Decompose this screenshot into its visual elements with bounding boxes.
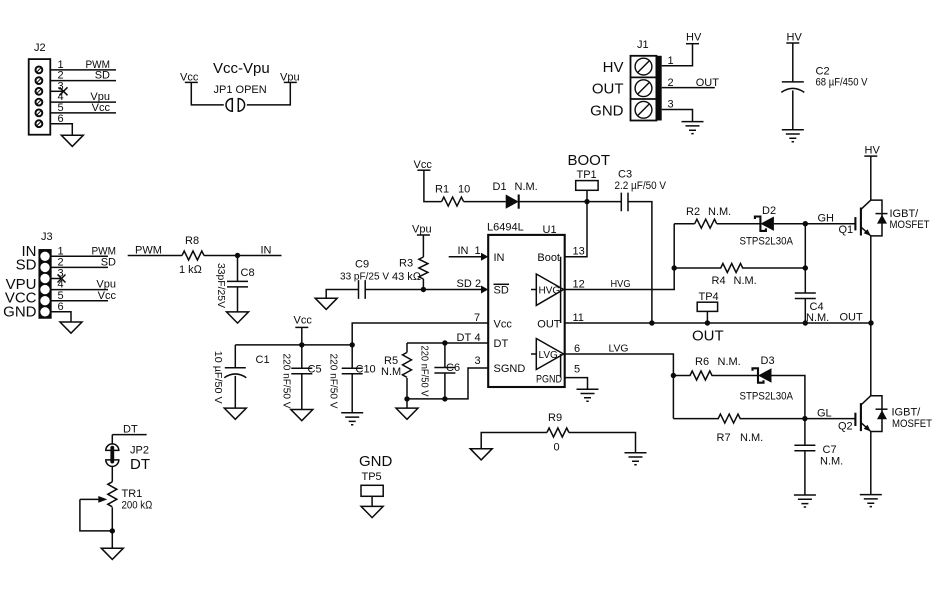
transistor Q1 IGBT/MOSFET	[839, 200, 883, 236]
diode Q2 body diode	[876, 409, 888, 419]
wire J1 pin 2 OUT	[662, 77, 720, 89]
testpoint TP5	[361, 471, 383, 506]
node junction GL	[802, 416, 807, 421]
wire GH down to C4	[804, 224, 806, 293]
wire J2 pin 2 SD	[50, 70, 116, 82]
wire R1 to D1	[464, 201, 506, 203]
svg-text:Q2: Q2	[838, 421, 853, 433]
svg-text:10 µF/50 V: 10 µF/50 V	[212, 351, 223, 404]
svg-text:JP1 OPEN: JP1 OPEN	[214, 84, 267, 96]
svg-text:200 kΩ: 200 kΩ	[122, 500, 153, 512]
diode Q1 body diode	[876, 214, 888, 224]
svg-text:HVG: HVG	[611, 279, 631, 290]
svg-text:R7: R7	[717, 432, 731, 444]
wire to R2	[674, 223, 695, 225]
wire R9 to earth ground	[569, 433, 636, 453]
wire U1 pin 5 PGND to ground	[565, 378, 588, 390]
svg-text:GND: GND	[590, 103, 624, 120]
diode D3 STPS2L30A schottky	[740, 355, 794, 403]
U1 internal buffer LVG	[531, 339, 564, 370]
svg-text:OUT: OUT	[592, 81, 624, 98]
label IN 1	[458, 245, 481, 257]
svg-text:0: 0	[554, 442, 560, 454]
node junction C3/OUT	[649, 320, 654, 325]
wire J3 pin 1 PWM	[51, 245, 116, 257]
pin arrow SD into U1	[481, 286, 488, 294]
svg-text:13: 13	[573, 245, 585, 257]
resistor R8 1k	[179, 235, 204, 276]
ground earth (Q2)	[860, 495, 882, 507]
wire PWM to R8	[128, 255, 182, 257]
node junction rail/C5	[299, 342, 304, 347]
wire R2 to D2	[717, 223, 761, 225]
node junction LVG/R6	[671, 373, 676, 378]
wire Vpu to R3	[422, 235, 424, 257]
J3 pin circle 1	[40, 252, 49, 261]
svg-text:N.M.: N.M.	[515, 181, 538, 193]
resistor R3 43k	[392, 257, 428, 283]
J3 pin circle 6	[40, 307, 49, 316]
svg-text:Vcc-Vpu: Vcc-Vpu	[213, 60, 270, 77]
svg-text:R8: R8	[185, 235, 199, 247]
svg-text:C1: C1	[256, 354, 270, 366]
svg-text:5: 5	[574, 364, 580, 376]
connector J2	[29, 42, 51, 135]
capacitor C2 68uF/450V polarized	[781, 66, 868, 93]
svg-text:IN: IN	[261, 245, 272, 257]
resistor R1 10	[435, 184, 470, 207]
svg-text:OUT: OUT	[537, 318, 561, 330]
svg-text:N.M.: N.M.	[718, 356, 741, 368]
wire C1 to ground	[234, 376, 236, 408]
capacitor C5 220nF/50V	[281, 354, 322, 409]
J3 pin circle 4	[40, 285, 49, 294]
svg-text:GND: GND	[3, 304, 37, 321]
node junction TP4/OUT	[705, 320, 710, 325]
svg-text:C7: C7	[823, 444, 837, 456]
wire D2 to GH node	[774, 223, 856, 225]
ground (C8)	[227, 312, 249, 323]
ground earth (R9 right)	[625, 453, 647, 465]
wire Q2 emitter to ground	[870, 432, 872, 495]
J1 terminal screw 1	[635, 58, 652, 75]
U1 internal buffer HVG	[531, 274, 564, 305]
ground earth (J1 pin 3)	[682, 122, 704, 134]
svg-text:D1: D1	[493, 181, 507, 193]
wire wiper return to bottom	[80, 499, 112, 531]
wire JP2 to TR1	[111, 466, 113, 481]
op-amp U1 L6494L gate driver IC	[487, 222, 565, 388]
U1 internal boot-out rail	[560, 257, 562, 323]
svg-text:C3: C3	[618, 169, 632, 181]
wire J3 pin 5 Vcc	[51, 290, 117, 302]
svg-text:R1: R1	[435, 184, 449, 196]
ground earth (C7)	[794, 495, 816, 507]
connector J3	[39, 231, 52, 318]
power Vcc (JP1 left)	[180, 72, 224, 105]
node BOOT junction	[584, 199, 589, 204]
svg-text:R9: R9	[548, 412, 562, 424]
svg-text:STPS2L30A: STPS2L30A	[740, 236, 794, 248]
wire J3 pin 6	[51, 301, 71, 322]
svg-text:7: 7	[474, 312, 480, 324]
svg-text:Vcc: Vcc	[494, 318, 513, 330]
wire DT to R5	[406, 343, 408, 352]
wire D1 to BOOT node	[519, 201, 622, 203]
wire GL to Q2 gate	[805, 418, 856, 420]
J2 screw pin 3	[36, 88, 43, 95]
ground earth (C10)	[341, 413, 363, 425]
wire C9 to SD pin 2	[365, 289, 483, 291]
wire J1 pin 3 to ground	[662, 99, 693, 122]
svg-text:220 nF/50 V: 220 nF/50 V	[419, 346, 430, 397]
wire J1 pin 1 to HV	[662, 44, 693, 67]
wire Vcc to R1	[424, 170, 442, 201]
svg-text:GL: GL	[817, 408, 832, 420]
wire J3 pin 3 no-connect	[51, 268, 66, 283]
node junction R8/C8	[235, 253, 240, 258]
svg-text:N.M.: N.M.	[734, 275, 757, 287]
U1 internal lvg-pgnd rail	[560, 354, 562, 378]
wire U1 pin 4 DT	[407, 342, 488, 344]
wire junction to C8	[237, 256, 239, 282]
svg-text:IN: IN	[494, 252, 505, 264]
svg-text:J2: J2	[34, 42, 46, 54]
power Vcc (R1 top)	[414, 159, 433, 171]
wire R5 to bottom node	[406, 378, 408, 399]
svg-text:PWM: PWM	[135, 245, 162, 257]
svg-text:SGND: SGND	[494, 363, 526, 375]
svg-text:SD: SD	[16, 257, 37, 274]
ground (C5)	[291, 410, 313, 421]
ground earth (PGND)	[577, 389, 599, 401]
svg-text:N.M.: N.M.	[740, 432, 763, 444]
ground (J2 pin 6)	[61, 135, 83, 146]
svg-text:DT: DT	[130, 456, 150, 473]
svg-text:LVG: LVG	[609, 344, 629, 355]
node junction HVG/R4	[672, 265, 677, 270]
wire SGND pin 3 to bottom node	[407, 368, 488, 399]
svg-text:2.2 µF/50 V: 2.2 µF/50 V	[615, 180, 667, 192]
svg-text:2: 2	[475, 278, 481, 290]
node junction R4/C4	[803, 265, 808, 270]
wire HV to Q1	[870, 156, 872, 200]
wire GL down to C7	[804, 419, 806, 446]
resistor R2 N.M.	[686, 206, 731, 228]
transistor TR1 potentiometer 200k	[108, 482, 153, 512]
svg-text:L6494L: L6494L	[487, 222, 524, 234]
resistor R5 N.M.	[381, 352, 412, 378]
node junction D2/C4 (GH)	[803, 221, 808, 226]
svg-text:1 kΩ: 1 kΩ	[179, 264, 203, 276]
svg-text:12: 12	[573, 279, 585, 291]
svg-text:R6: R6	[695, 356, 709, 368]
node junction TR1/wiper	[110, 528, 115, 533]
svg-text:Q1: Q1	[839, 224, 854, 236]
svg-text:3: 3	[668, 99, 674, 111]
wire U1 pin 12 HVG	[565, 224, 675, 290]
J2 screw pin 1	[36, 67, 43, 74]
label IGBT/MOSFET (Q2)	[892, 407, 933, 431]
wire U1 pin 6 LVG	[565, 344, 674, 419]
svg-text:3: 3	[475, 355, 481, 367]
capacitor C1 10uF/50V polarized	[212, 351, 270, 404]
transistor Q2 IGBT/MOSFET	[838, 396, 882, 433]
svg-text:TP1: TP1	[577, 169, 597, 181]
resistor R6 N.M.	[673, 356, 758, 380]
svg-text:Boot: Boot	[537, 252, 560, 264]
ground (R5/C6)	[396, 408, 418, 419]
svg-text:MOSFET: MOSFET	[892, 418, 932, 430]
svg-text:OUT: OUT	[840, 312, 864, 324]
wire J2 pin 5 Vcc	[50, 102, 116, 114]
resistor R9 0	[547, 412, 569, 454]
power HV (Q1 collector)	[864, 145, 880, 157]
diode D1 N.M.	[493, 181, 538, 209]
node junction DT/C6 top	[442, 340, 447, 345]
wire J2 pin 4 Vpu	[50, 91, 116, 103]
connector J1	[631, 39, 662, 121]
wire C2 to ground	[792, 90, 794, 129]
wire IN stub to pin 1	[449, 256, 483, 258]
wire D3 down to GL node	[772, 376, 805, 419]
J1 terminal screw 2	[635, 80, 652, 97]
svg-text:IGBT/: IGBT/	[892, 407, 922, 419]
ground (C1)	[224, 408, 246, 419]
wire OUT to Q2 collector	[870, 323, 872, 396]
svg-text:J1: J1	[637, 39, 649, 51]
node junction C4/OUT	[803, 320, 808, 325]
svg-text:220 nF/50 V: 220 nF/50 V	[328, 354, 339, 409]
resistor R7 N.M.	[673, 414, 805, 444]
svg-text:DT: DT	[457, 332, 472, 344]
TR1 wiper arrow	[80, 496, 107, 503]
label IGBT/MOSFET (Q1)	[890, 208, 930, 231]
wire C8 to ground	[237, 287, 239, 312]
J3 pin circle 3	[40, 274, 49, 283]
wire C4 to OUT line	[804, 299, 806, 324]
svg-text:Vpu: Vpu	[412, 224, 432, 236]
ground (J3 pin 6)	[60, 322, 82, 333]
svg-text:11: 11	[573, 312, 584, 324]
svg-text:R2: R2	[686, 206, 700, 218]
J2 screw pin 2	[36, 77, 43, 84]
label SD 2	[457, 278, 482, 290]
ground (TP5)	[361, 506, 383, 517]
wire C7 to ground	[804, 451, 806, 495]
node junction OUT/Q2	[868, 320, 873, 325]
wire Vcc rail	[235, 344, 352, 346]
wire Q1 emitter to OUT	[870, 236, 872, 323]
svg-text:OUT: OUT	[692, 328, 724, 345]
wire J3 pin 4 Vpu	[51, 279, 116, 291]
J2 screw pin 5	[36, 110, 43, 117]
svg-text:N.M.: N.M.	[806, 312, 829, 324]
svg-text:R3: R3	[399, 258, 413, 270]
capacitor C8 33pF/25V	[215, 263, 255, 308]
power Vpu (R3 top)	[412, 224, 432, 236]
node junction R3/SD	[421, 287, 426, 292]
svg-text:N.M.: N.M.	[381, 366, 404, 378]
svg-text:1: 1	[475, 245, 481, 257]
capacitor C6 220nF/50V	[419, 343, 461, 399]
svg-text:HV: HV	[787, 32, 803, 44]
svg-text:6: 6	[574, 343, 580, 355]
testpoint TP4	[697, 291, 718, 323]
wire DT stub to JP2	[111, 435, 113, 445]
wire C5 to ground	[301, 374, 303, 410]
node junction R5 bottom	[404, 396, 409, 401]
wire J3 pin 2 SD	[51, 257, 116, 269]
svg-text:PGND: PGND	[536, 374, 562, 386]
svg-text:JP2: JP2	[130, 445, 149, 457]
wire rail to C1	[234, 345, 236, 368]
svg-text:68 µF/450 V: 68 µF/450 V	[816, 77, 869, 89]
wire R8 to IN stub	[204, 255, 282, 257]
svg-text:TP5: TP5	[362, 471, 382, 483]
svg-text:C8: C8	[241, 267, 255, 279]
svg-text:4: 4	[475, 332, 481, 344]
svg-text:BOOT: BOOT	[568, 152, 611, 169]
capacitor C10 220nF/50V	[328, 354, 376, 409]
wire HV to C2	[792, 43, 794, 82]
svg-text:DT: DT	[494, 338, 509, 350]
wire J2 pin 6	[50, 113, 72, 135]
J2 screw pin 6	[36, 120, 43, 127]
wire J2 pin 3 no-connect	[50, 80, 67, 95]
jumper JP2 closed	[106, 444, 149, 466]
svg-text:STPS2L30A: STPS2L30A	[740, 391, 794, 403]
power Vpu (JP1 right)	[247, 72, 300, 105]
svg-text:TP4: TP4	[699, 291, 719, 303]
wire Vcc stub to rail	[301, 327, 303, 345]
diode D2 STPS2L30A schottky	[740, 205, 794, 248]
svg-text:Vcc: Vcc	[294, 315, 313, 327]
J2 screw pin 4	[36, 99, 43, 106]
svg-text:R4: R4	[712, 275, 726, 287]
wire ground to R9	[481, 433, 547, 449]
wire rail up to U1 pin 7	[352, 323, 488, 345]
capacitor C9 33pF/25V	[340, 259, 389, 299]
svg-text:33pF/25V: 33pF/25V	[215, 263, 226, 308]
wire bottom node to ground	[406, 399, 408, 408]
svg-text:220 nF/50 V: 220 nF/50 V	[281, 354, 292, 409]
wire C10 to ground	[351, 374, 353, 413]
svg-text:SD: SD	[457, 278, 472, 290]
node DT stub	[112, 424, 146, 436]
power HV (C2 top)	[786, 32, 802, 44]
svg-text:MOSFET: MOSFET	[890, 219, 930, 231]
jumper JP1 OPEN	[214, 84, 267, 111]
capacitor C3 2.2uF/50V	[615, 169, 667, 212]
svg-text:IN: IN	[458, 245, 469, 257]
J3 pin circle 2	[40, 263, 49, 272]
svg-text:HV: HV	[865, 145, 881, 157]
J3 pin circle 5	[40, 296, 49, 305]
ground earth (C2)	[782, 130, 804, 142]
wire rail to C5	[301, 345, 303, 368]
svg-text:GND: GND	[359, 453, 393, 470]
J1 terminal screw 3	[635, 101, 652, 118]
wire BOOT node down to pin 13	[565, 202, 587, 257]
svg-text:D3: D3	[761, 355, 775, 367]
wire ground to C9	[326, 290, 358, 299]
svg-text:TR1: TR1	[122, 488, 143, 500]
svg-text:SD: SD	[494, 285, 509, 297]
svg-text:C9: C9	[355, 259, 369, 271]
svg-text:N.M.: N.M.	[820, 456, 843, 468]
wire R3 to SD line	[422, 279, 424, 290]
svg-text:HVG: HVG	[539, 285, 561, 296]
svg-text:HV: HV	[686, 32, 702, 44]
wire J2 pin 1 PWM	[50, 59, 116, 71]
power Vcc (rail)	[294, 315, 313, 328]
svg-text:GH: GH	[818, 213, 835, 225]
svg-text:10: 10	[458, 184, 470, 196]
svg-text:Vcc: Vcc	[414, 159, 433, 171]
ground (TR1)	[101, 548, 123, 559]
wire C3 to OUT line	[628, 202, 652, 323]
capacitor C7 N.M.	[794, 444, 843, 468]
svg-text:43 kΩ: 43 kΩ	[392, 271, 422, 283]
svg-text:HV: HV	[603, 59, 624, 76]
svg-text:LVG: LVG	[539, 350, 558, 361]
testpoint TP1	[576, 169, 598, 202]
capacitor C4 N.M.	[795, 293, 829, 324]
node junction rail/C10	[350, 342, 355, 347]
node junction C6 bottom	[442, 396, 447, 401]
U1 pin name SD (overline)	[494, 284, 510, 296]
svg-text:D2: D2	[762, 205, 776, 217]
power HV (J1 pin 1)	[686, 32, 702, 44]
svg-text:DT: DT	[123, 424, 138, 436]
ground (C9 left)	[315, 298, 337, 309]
ground (R9 left)	[470, 449, 492, 460]
label DT 4	[457, 332, 481, 344]
pin arrow IN into U1	[481, 253, 488, 261]
wire TR1 bottom	[111, 507, 113, 548]
svg-text:J3: J3	[41, 231, 53, 243]
svg-text:N.M.: N.M.	[708, 206, 731, 218]
wire rail to C10	[351, 345, 353, 368]
resistor R4 N.M.	[674, 264, 805, 288]
wire OUT line (pin 11 to output node)	[565, 322, 871, 324]
